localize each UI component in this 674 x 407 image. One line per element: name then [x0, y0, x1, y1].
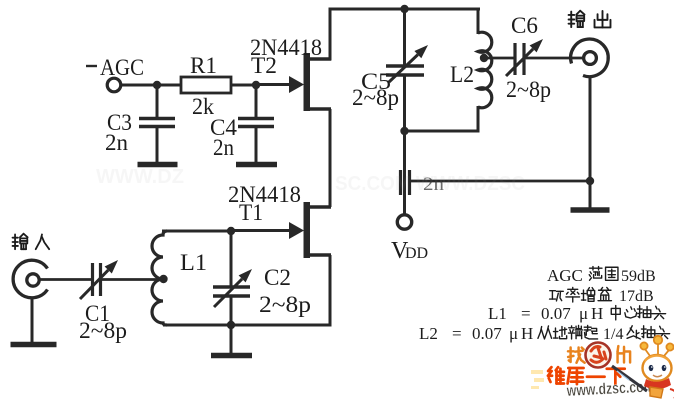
- ground output: [571, 207, 610, 213]
- wire L2 bottom rail: [403, 130, 480, 133]
- ground L1 tank: [211, 353, 252, 359]
- svg-text:L2: L2: [419, 324, 438, 343]
- svg-text:L1: L1: [488, 304, 507, 323]
- svg-text:AGC: AGC: [100, 55, 144, 80]
- wire C2 ground: [230, 325, 233, 353]
- note line1 AGC range: [547, 266, 656, 285]
- label C2: [264, 265, 291, 290]
- inductor L1: [152, 231, 167, 325]
- label R1: [190, 53, 217, 78]
- ground C4: [236, 162, 277, 168]
- connector input jack: [13, 260, 47, 298]
- note line2 power gain: [550, 287, 654, 305]
- node T2 gate / C4: [252, 81, 260, 89]
- trimmer arrow C1: [80, 260, 118, 299]
- trimmer arrow C5: [389, 45, 428, 82]
- svg-text:L1: L1: [180, 250, 207, 275]
- svg-text:L2: L2: [450, 62, 474, 87]
- label C3: [107, 110, 132, 135]
- label VDD: [391, 238, 428, 264]
- label C6: [511, 13, 538, 38]
- note line4 L2: [419, 324, 670, 343]
- trimmer arrow C6: [506, 39, 543, 76]
- inductor L2: [478, 8, 492, 133]
- svg-text:=: =: [452, 324, 462, 343]
- watermark magnifier: [586, 343, 611, 368]
- svg-text:C6: C6: [511, 13, 538, 38]
- wire output to ground: [589, 181, 592, 208]
- capacitor C5: [386, 9, 424, 131]
- svg-text:2~8p: 2~8p: [79, 318, 127, 343]
- wire input ground: [31, 298, 34, 342]
- svg-text:C2: C2: [264, 265, 291, 290]
- ground C3: [138, 162, 178, 168]
- label C6 value: [506, 77, 551, 102]
- wire L1 top: [162, 230, 231, 233]
- label L2: [450, 62, 474, 87]
- watermark glyph pian (chip): [618, 346, 631, 362]
- label C3 value 2n: [105, 130, 129, 155]
- capacitor C4: [238, 85, 274, 163]
- label C2 value: [259, 292, 311, 317]
- label C4 value 2n: [213, 135, 234, 160]
- watermark glyph zhao (find): [568, 348, 585, 363]
- svg-text:H: H: [591, 304, 603, 323]
- wire T2 source to T1 drain: [329, 109, 332, 207]
- svg-text:0.07: 0.07: [541, 304, 571, 323]
- node C2 bottom: [227, 321, 235, 329]
- wire output down: [589, 77, 592, 182]
- svg-text:59dB: 59dB: [621, 268, 656, 285]
- wire VDD vertical: [403, 131, 406, 215]
- label T2 part number: [250, 35, 322, 60]
- label R1 value 2k: [192, 94, 214, 119]
- node C3 junction: [153, 81, 161, 89]
- transistor T2 2N4418: [256, 53, 331, 111]
- capacitor bypass 2n: [401, 170, 410, 195]
- svg-text:T1: T1: [239, 200, 263, 225]
- node L2 tap: [480, 54, 488, 62]
- terminal VDD: [397, 215, 411, 229]
- node top junction: [400, 5, 408, 13]
- node L1 center tap: [159, 275, 167, 283]
- label bypass value 2n: [423, 174, 445, 195]
- svg-text:0.07: 0.07: [472, 324, 502, 343]
- label -AGC: [86, 55, 144, 80]
- terminal -AGC: [107, 78, 121, 92]
- svg-text:SC.COM WWW.DZSC: SC.COM WWW.DZSC: [335, 173, 525, 195]
- svg-text:1/4: 1/4: [603, 326, 623, 343]
- svg-text:2n: 2n: [105, 130, 129, 155]
- note line3 L1: [488, 304, 666, 323]
- svg-text:μ: μ: [579, 304, 588, 323]
- svg-text:T2: T2: [251, 53, 277, 78]
- label C4: [210, 115, 237, 140]
- label T1: [239, 200, 263, 225]
- trimmer arrow C2: [214, 269, 252, 307]
- transistor T1 2N4418: [231, 202, 331, 258]
- node C5 bottom: [400, 127, 408, 135]
- capacitor C2: [213, 231, 250, 325]
- label T1 part number: [228, 182, 301, 207]
- resistor R1: [121, 77, 256, 93]
- ground input: [11, 342, 57, 348]
- watermark mascot: [612, 336, 674, 398]
- label C1: [85, 301, 110, 326]
- svg-text:2~8p: 2~8p: [352, 85, 399, 110]
- label output (shu-chu): [569, 11, 611, 28]
- label C1 value: [79, 318, 127, 343]
- ghost watermark band: [96, 166, 525, 195]
- watermark text wei-ku-yi-xia: [548, 367, 625, 384]
- wire top rail: [329, 8, 480, 11]
- node output ground junction: [586, 177, 594, 185]
- label T2: [251, 53, 277, 78]
- svg-text:2n: 2n: [213, 135, 234, 160]
- connector output jack: [571, 39, 609, 77]
- svg-text:DD: DD: [405, 245, 428, 262]
- svg-text:2~8p: 2~8p: [259, 292, 311, 317]
- svg-text:2~8p: 2~8p: [506, 77, 551, 102]
- label C5: [361, 69, 391, 94]
- svg-text:=: =: [521, 304, 531, 323]
- svg-text:μ: μ: [509, 324, 518, 343]
- wire bypass to ground: [410, 180, 591, 183]
- capacitor C3: [139, 85, 175, 163]
- label input (shu-ru): [13, 234, 50, 249]
- node T1 gate / C2 top: [227, 227, 235, 235]
- wire input to C1: [39, 278, 92, 281]
- svg-text:H: H: [521, 324, 533, 343]
- svg-text:R1: R1: [190, 53, 217, 78]
- svg-text:AGC: AGC: [547, 266, 583, 285]
- label C5 value: [352, 85, 399, 110]
- svg-text:17dB: 17dB: [619, 288, 654, 305]
- svg-text:WWW.DZ: WWW.DZ: [96, 166, 184, 188]
- wire T1 source: [329, 255, 332, 327]
- capacitor C6: [484, 43, 584, 75]
- watermark url www.dzsc.com: [566, 378, 656, 400]
- capacitor C1: [93, 263, 163, 296]
- watermark yellow streaks: [531, 370, 544, 389]
- wire bottom rail: [163, 324, 332, 327]
- wire T2 drain: [329, 8, 332, 61]
- label L1: [180, 250, 207, 275]
